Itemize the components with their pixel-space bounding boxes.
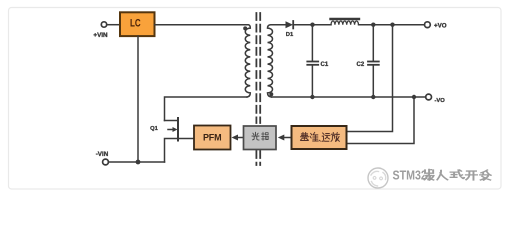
wire Q1 gate to PFM	[178, 138, 194, 140]
wire -VO rail	[272, 96, 426, 98]
glyph 准	[310, 133, 318, 142]
wire secondary top to diode	[271, 24, 286, 26]
capacitor C1	[307, 25, 318, 97]
glyph 运	[322, 133, 330, 141]
wire primary bottom to Q1 drain	[165, 97, 248, 121]
terminal -VO	[426, 94, 432, 100]
transformer T1 secondary winding	[268, 25, 273, 97]
node LC return junction	[136, 160, 141, 165]
svg-text:LC: LC	[130, 17, 141, 30]
svg-text:C2: C2	[357, 62, 365, 68]
wire LC bottom to -VIN rail	[137, 36, 139, 162]
diode D1	[286, 21, 294, 28]
glyph 耦	[262, 132, 269, 140]
label Q1	[150, 126, 159, 132]
terminal +VIN	[101, 22, 106, 27]
wire -VIN rail	[108, 161, 164, 163]
svg-text:C1: C1	[321, 62, 329, 68]
label +VIN	[93, 32, 108, 39]
glyph 入	[438, 172, 448, 181]
capacitor C2	[368, 25, 379, 97]
node C2 top junction	[371, 23, 375, 27]
svg-text:D1: D1	[286, 32, 294, 38]
wire feedback A (+VO sense)	[347, 25, 393, 132]
block LC	[120, 12, 155, 36]
node primary dot (polarity)	[243, 26, 247, 30]
glyph 基	[301, 133, 309, 141]
label +VO	[434, 23, 447, 30]
terminal +VO	[425, 22, 431, 28]
terminal -VIN	[103, 159, 109, 165]
transformer core / isolation barrier dashed lines	[256, 13, 260, 165]
node diode/C1 junction	[310, 23, 314, 27]
wire optocoupler to PFM with arrow	[232, 135, 244, 141]
wire reference to optocoupler with arrow	[278, 135, 292, 141]
node C1 bottom junction	[310, 95, 314, 99]
label -VO	[435, 98, 446, 104]
glyph 放	[331, 133, 339, 142]
wire inductor to +VO	[359, 24, 425, 26]
watermark glyphs 嵌入式开发	[425, 169, 492, 181]
node feedback A junction	[390, 23, 394, 27]
svg-text:Q1: Q1	[150, 126, 159, 132]
node secondary dot (polarity)	[269, 92, 273, 96]
glyph 光	[252, 132, 259, 140]
glyph 开	[466, 171, 477, 180]
watermark logo circle	[368, 168, 388, 188]
block reference/op-amp (基准.运放)	[292, 126, 347, 149]
svg-text:+VIN: +VIN	[93, 32, 108, 39]
wire feedback B (-VO sense)	[347, 97, 415, 144]
svg-text:+VO: +VO	[434, 23, 447, 30]
glyph 发	[480, 170, 491, 180]
glyph 入	[437, 170, 447, 179]
label C2	[357, 62, 365, 68]
wire +VIN to LC	[107, 24, 120, 26]
svg-text:STM32: STM32	[393, 168, 428, 183]
glyph .	[319, 139, 322, 142]
svg-text:-VO: -VO	[435, 98, 446, 104]
frame border (decorative)	[9, 8, 502, 190]
block PFM	[194, 126, 231, 150]
wire LC to transformer primary	[155, 24, 249, 26]
label -VIN	[96, 151, 109, 158]
label D1	[286, 32, 294, 38]
svg-text:-VIN: -VIN	[96, 151, 109, 158]
svg-text:PFM: PFM	[203, 132, 221, 142]
glyph 嵌	[425, 169, 434, 180]
label C1	[321, 62, 329, 68]
inductor L1 with core bar	[331, 19, 360, 25]
glyph 式	[451, 171, 465, 179]
block optocoupler (光耦)	[244, 126, 277, 150]
node feedback B junction	[412, 95, 416, 99]
watermark text STM32	[393, 168, 428, 185]
node C2 bottom junction	[371, 95, 375, 99]
glyph 发	[481, 171, 492, 181]
glyph 开	[466, 172, 477, 181]
wire diode to inductor	[293, 24, 331, 26]
glyph 嵌	[425, 171, 434, 182]
glyph 式	[451, 170, 465, 178]
transformer T1 primary winding	[245, 25, 250, 97]
transistor Q1	[165, 118, 179, 162]
